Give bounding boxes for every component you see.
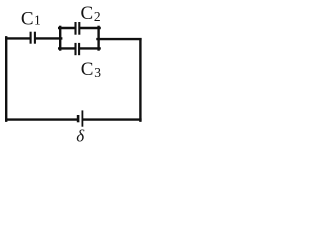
svg-text:C: C [81,3,94,24]
wire top-left segment [6,37,29,39]
wire C1 to parallel block [36,37,61,39]
svg-text:2: 2 [94,9,101,24]
capacitor C2 [76,22,80,35]
wire top branch left of C2 [59,27,74,29]
wire left side [5,37,7,120]
svg-text:3: 3 [94,65,101,80]
svg-text:C: C [81,59,94,80]
capacitor C3 [76,43,80,55]
wire block to right side [98,38,141,40]
wire bottom branch left of C3 [59,47,74,49]
wire bottom-left segment [6,118,77,120]
wire right side [139,39,141,120]
svg-text:1: 1 [34,13,41,28]
node left edge of parallel block [59,27,61,50]
svg-text:C: C [21,9,34,30]
wire bottom-right segment [83,118,140,120]
wire bottom branch right of C3 [80,47,99,49]
battery cell (EMF source) [78,110,82,126]
capacitor C1 [31,32,35,44]
wire top branch right of C2 [80,27,99,29]
svg-text:δ: δ [76,126,85,145]
node right edge of parallel block [97,27,99,50]
